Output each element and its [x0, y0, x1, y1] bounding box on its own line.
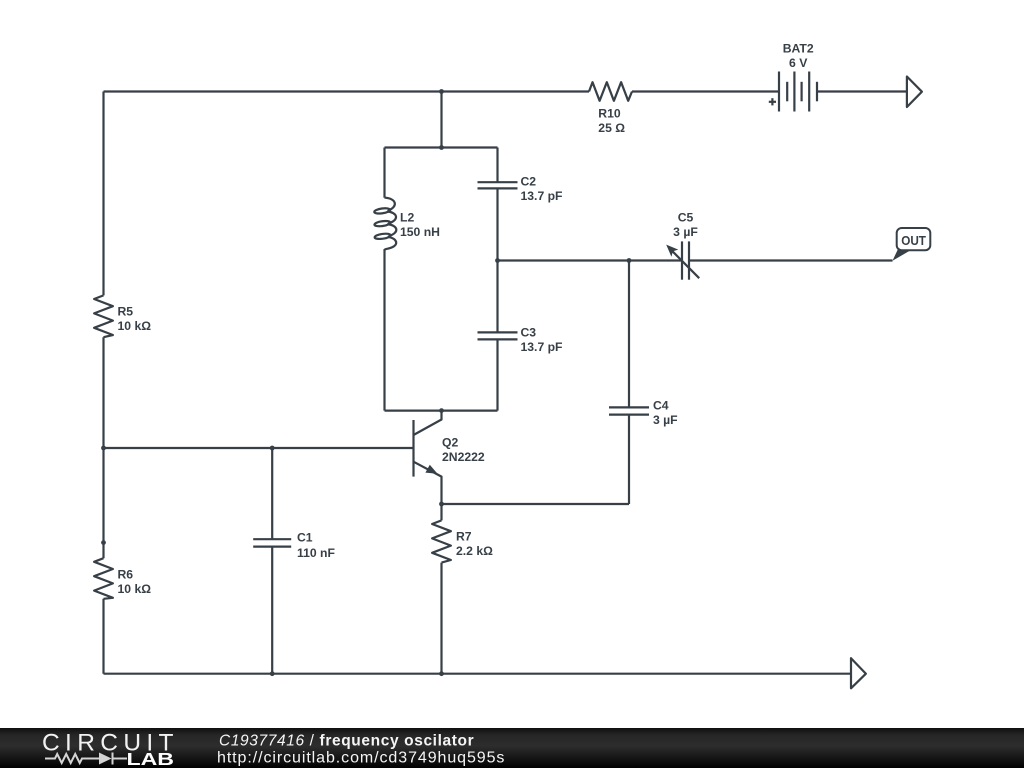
svg-text:13.7 pF: 13.7 pF	[521, 189, 563, 203]
svg-text:3 µF: 3 µF	[673, 225, 698, 239]
svg-text:BAT2: BAT2	[783, 41, 814, 55]
svg-text:C2: C2	[521, 174, 537, 188]
svg-text:150 nH: 150 nH	[400, 225, 440, 239]
svg-text:R10: R10	[598, 106, 621, 120]
svg-text:110 nF: 110 nF	[297, 546, 335, 560]
svg-text:Q2: Q2	[442, 436, 458, 450]
svg-text:10 kΩ: 10 kΩ	[118, 319, 152, 333]
svg-text:2N2222: 2N2222	[442, 450, 485, 464]
svg-text:6 V: 6 V	[789, 56, 808, 70]
svg-text:10 kΩ: 10 kΩ	[118, 582, 152, 596]
svg-text:L2: L2	[400, 210, 414, 224]
svg-text:OUT: OUT	[901, 234, 926, 248]
svg-text:R7: R7	[456, 529, 472, 543]
svg-text:C1: C1	[297, 530, 313, 544]
svg-text:LAB: LAB	[127, 749, 175, 768]
svg-text:C4: C4	[653, 398, 669, 412]
svg-text:3 µF: 3 µF	[653, 413, 678, 427]
svg-text:R6: R6	[118, 568, 134, 582]
svg-text:25 Ω: 25 Ω	[598, 121, 625, 135]
svg-text:R5: R5	[118, 304, 134, 318]
svg-text:C19377416 / frequency oscilato: C19377416 / frequency oscilator	[219, 732, 474, 749]
svg-text:C5: C5	[678, 210, 694, 224]
svg-text:13.7 pF: 13.7 pF	[521, 340, 563, 354]
svg-text:http://circuitlab.com/cd3749hu: http://circuitlab.com/cd3749huq595s	[217, 750, 505, 767]
svg-text:C3: C3	[521, 326, 537, 340]
svg-text:2.2 kΩ: 2.2 kΩ	[456, 544, 493, 558]
